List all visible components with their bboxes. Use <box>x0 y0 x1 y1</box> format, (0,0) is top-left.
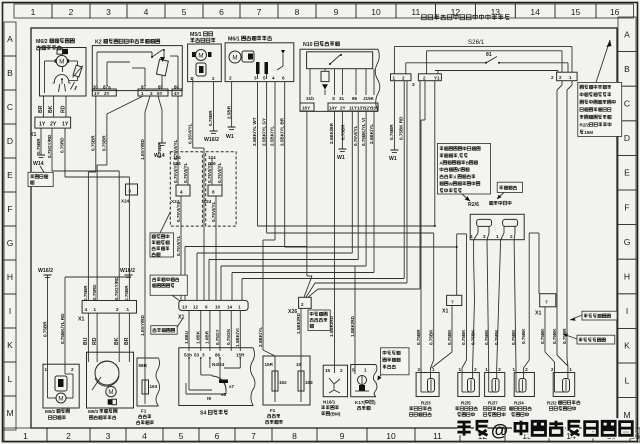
motor M6/2 left headlamp wiper motor <box>36 39 86 96</box>
svg-text:2.5BR: 2.5BR <box>226 105 231 119</box>
svg-text:S4: S4 <box>200 411 206 417</box>
svg-text:0.75BK: 0.75BK <box>461 329 466 345</box>
svg-text:2: 2 <box>66 431 71 441</box>
note box: curve indicates part of connector <box>308 310 330 331</box>
svg-text:s7: s7 <box>229 384 235 389</box>
switch S4 combination switch <box>179 348 255 417</box>
svg-text:2: 2 <box>510 234 513 239</box>
svg-text:4: 4 <box>85 307 88 312</box>
top ruler <box>14 4 633 18</box>
svg-text:0.75BK: 0.75BK <box>540 328 545 344</box>
svg-text:2: 2 <box>551 367 554 372</box>
svg-text:A: A <box>624 29 630 39</box>
svg-text:0.75BK: 0.75BK <box>484 329 489 345</box>
control unit N16/1 power latch computer <box>321 365 347 417</box>
connector (S26/1 left pins) <box>391 74 442 87</box>
svg-text:0.75VI/YL: 0.75VI/YL <box>211 201 216 222</box>
svg-text:2: 2 <box>71 367 74 372</box>
wires from variant boxes down to connector X1 bar <box>176 226 216 300</box>
svg-text:F1: F1 <box>270 408 276 413</box>
heater R2/4 left washer nozzle hose heater <box>510 367 535 416</box>
svg-text:163: 163 <box>150 384 158 389</box>
wires below K2 <box>91 96 179 358</box>
wire to N16/1 with label 1.5BK/RD <box>329 315 334 337</box>
wires from S26/1 connector into X26 (bent, converging) <box>304 81 420 298</box>
svg-text:1.5BK/VI: 1.5BK/VI <box>235 328 240 347</box>
variant box 124 036 (dashed) <box>203 152 236 226</box>
svg-text:2Y: 2Y <box>340 106 346 111</box>
svg-text:7: 7 <box>257 7 262 17</box>
relay K17 (hydraulic) <box>351 365 377 410</box>
staircase wires: X1 bar top pins up then right to N10 drops <box>185 81 404 301</box>
bottom ruler <box>4 428 640 442</box>
ground W16/2 under M5/1 <box>204 131 219 143</box>
svg-text:86: 86 <box>215 353 221 358</box>
svg-text:L: L <box>8 374 13 384</box>
svg-text:K: K <box>624 341 630 351</box>
svg-text:J15K: J15K <box>363 96 375 101</box>
switch S26/1 heated washer system thermo switch buses <box>394 39 572 74</box>
svg-text:F1: F1 <box>141 409 147 414</box>
svg-text:2: 2 <box>551 75 554 80</box>
svg-text:14: 14 <box>227 304 233 309</box>
svg-text:0.75RD: 0.75RD <box>92 284 97 300</box>
svg-text:9: 9 <box>205 304 208 309</box>
svg-text:6: 6 <box>215 431 220 441</box>
svg-text:K: K <box>7 340 13 350</box>
right ruler <box>618 17 636 432</box>
svg-text:1.0BK: 1.0BK <box>196 330 201 344</box>
svg-text:14Y: 14Y <box>329 106 337 111</box>
svg-text:0.75BK RD: 0.75BK RD <box>399 116 404 140</box>
svg-text:M5/2: M5/2 <box>45 409 56 414</box>
R2/6 top feeds from bus <box>425 81 435 226</box>
svg-text:Y1: Y1 <box>434 76 440 81</box>
svg-text:W14: W14 <box>33 161 44 167</box>
svg-text:5: 5 <box>179 431 184 441</box>
svg-text:10: 10 <box>371 7 381 17</box>
svg-text:31b: 31b <box>306 96 314 101</box>
svg-text:1.0GY/RD: 1.0GY/RD <box>140 314 145 336</box>
svg-text:0.75BK: 0.75BK <box>511 329 516 345</box>
svg-text:I: I <box>9 306 11 316</box>
svg-text:R2/4: R2/4 <box>514 401 524 406</box>
connector bar (above M6/3) <box>78 301 137 323</box>
svg-text:t9: t9 <box>207 396 212 401</box>
svg-text:0.75BR: 0.75BR <box>36 138 41 154</box>
svg-text:3: 3 <box>412 82 415 87</box>
relay module K2 headlamp washer relay <box>92 39 182 96</box>
connector X26 <box>288 297 311 315</box>
svg-text:BU: BU <box>83 337 89 345</box>
svg-text:G: G <box>7 238 14 248</box>
note box: connector code <box>151 318 183 334</box>
watermark <box>457 420 632 440</box>
svg-text:W16/2: W16/2 <box>204 137 219 143</box>
left long wires to bottom connector bar <box>52 165 129 301</box>
svg-text:0.75VI/YL: 0.75VI/YL <box>176 201 181 222</box>
ground W14 <box>33 155 45 167</box>
svg-text:2: 2 <box>559 75 562 80</box>
svg-text:M: M <box>59 59 64 66</box>
svg-text:R2/2: R2/2 <box>580 123 590 128</box>
svg-text:BK: BK <box>114 337 120 345</box>
svg-text:0.75BR: 0.75BR <box>124 285 129 301</box>
svg-text:?: ? <box>451 299 454 304</box>
connector X1 (left, 3-pin bar) <box>30 117 71 138</box>
svg-text:M: M <box>58 396 63 403</box>
left ruler <box>4 22 16 430</box>
svg-text:M: M <box>232 55 237 62</box>
svg-text:1: 1 <box>238 304 241 309</box>
svg-text:M: M <box>6 408 13 418</box>
note box: coordinate explanation (right) <box>578 40 622 136</box>
wire to K17: from X26 area down <box>350 266 355 365</box>
wires bar to M6/3 with labels BU RD BK BR <box>83 313 130 358</box>
motor M6/3 right headlamp wiper motor <box>87 352 134 419</box>
motor M6/1 wiper motor <box>225 36 294 82</box>
svg-text:F: F <box>7 204 12 214</box>
svg-text:3: 3 <box>202 353 205 358</box>
svg-text:53: 53 <box>194 353 200 358</box>
wires below X1: 0.75BR to ground W14, 0.75GY/RD, 0.75RD <box>36 128 65 177</box>
svg-text:1: 1 <box>94 307 97 312</box>
heater R2/3 right washer nozzle heater <box>409 367 439 416</box>
svg-text:0.75BK: 0.75BK <box>552 328 557 344</box>
svg-text:2: 2 <box>116 307 119 312</box>
svg-text:C: C <box>624 99 630 109</box>
svg-text:1: 1 <box>141 91 144 96</box>
svg-text:4: 4 <box>470 234 473 239</box>
svg-text:53b: 53b <box>184 353 192 358</box>
svg-text:11: 11 <box>411 7 420 17</box>
svg-text:1Y: 1Y <box>39 122 46 128</box>
wire 2.5BK/YL into F1 right <box>258 240 275 356</box>
svg-text:R2/7: R2/7 <box>488 401 498 406</box>
svg-text:W1: W1 <box>389 156 397 162</box>
svg-text:3: 3 <box>106 431 111 441</box>
note box: ground point symbol <box>28 166 53 187</box>
svg-text:X1: X1 <box>442 309 448 315</box>
connector (S26/1 right pins) <box>551 72 577 81</box>
svg-text:0.75VI/YL: 0.75VI/YL <box>173 162 178 183</box>
note box: wire color code <box>570 311 617 321</box>
svg-text:2: 2 <box>418 367 421 372</box>
svg-text:2: 2 <box>474 367 477 372</box>
svg-text:1.0GY/RD: 1.0GY/RD <box>140 138 145 160</box>
svg-text:86: 86 <box>352 96 358 101</box>
svg-text:0.75BK: 0.75BK <box>470 329 475 345</box>
svg-text:2: 2 <box>498 367 501 372</box>
connector X1 (small, far right) <box>535 294 556 317</box>
svg-text:6: 6 <box>219 7 224 17</box>
svg-text:X1: X1 <box>78 317 84 323</box>
svg-text:0.75BR: 0.75BR <box>341 124 346 140</box>
svg-text:0.75BR: 0.75BR <box>208 110 213 126</box>
svg-text:2.5BK/YL: 2.5BK/YL <box>369 124 374 144</box>
svg-text:3: 3 <box>254 76 257 81</box>
svg-text:162: 162 <box>279 380 287 385</box>
svg-text:G: G <box>624 237 631 247</box>
svg-text:8: 8 <box>292 431 297 441</box>
svg-text:N4/34: N4/34 <box>212 362 225 367</box>
svg-text:0.75VI/YL: 0.75VI/YL <box>207 162 212 183</box>
svg-text:0.75BR: 0.75BR <box>389 124 394 140</box>
svg-text:,: , <box>458 154 459 159</box>
svg-text:0.75BR: 0.75BR <box>91 135 96 151</box>
long heater feed wires with labels <box>258 81 573 373</box>
svg-text:15: 15 <box>571 7 581 17</box>
svg-text:0.75GY/RD: 0.75GY/RD <box>47 134 52 158</box>
svg-text:?: ? <box>545 299 548 304</box>
svg-text:1: 1 <box>459 367 462 372</box>
svg-text:1: 1 <box>364 368 367 373</box>
heater R2/7 windshield washer hose heater <box>483 367 505 416</box>
svg-text:11: 11 <box>433 431 442 441</box>
svg-text:0.75BR: 0.75BR <box>102 135 107 151</box>
connector X1 (small, mid-right) <box>442 295 462 314</box>
svg-text:13: 13 <box>182 304 188 309</box>
svg-text:124: 124 <box>173 155 181 160</box>
svg-text:14: 14 <box>530 7 540 17</box>
svg-text:1.5BK/RD: 1.5BK/RD <box>296 312 301 334</box>
note box: device code explanation <box>437 143 490 201</box>
svg-text:M: M <box>198 53 203 60</box>
svg-text:E: E <box>624 168 630 178</box>
svg-text:R2/2: R2/2 <box>547 401 557 406</box>
svg-text:4: 4 <box>142 431 147 441</box>
svg-text:2.5BK/YL: 2.5BK/YL <box>258 327 263 347</box>
svg-text:H: H <box>7 272 13 282</box>
heater R2/5 right washer hose heater <box>455 367 479 416</box>
svg-text:BK: BK <box>48 105 54 113</box>
svg-text:2.5BK/YL: 2.5BK/YL <box>270 126 275 146</box>
svg-text:0.75VI/YL: 0.75VI/YL <box>217 162 222 183</box>
svg-text:F: F <box>624 202 629 212</box>
svg-text:1: 1 <box>31 7 36 17</box>
svg-text:S: S <box>332 96 335 101</box>
fuse box F1 (left) <box>136 358 159 424</box>
svg-text:s8: s8 <box>221 392 227 397</box>
svg-text:0.35VI/YL: 0.35VI/YL <box>188 123 193 144</box>
svg-text:0.75BR: 0.75BR <box>83 285 88 301</box>
svg-text:0.75BK: 0.75BK <box>494 329 499 345</box>
svg-text:N10: N10 <box>303 42 313 48</box>
svg-text:4Y: 4Y <box>174 91 180 96</box>
svg-text:2.5BK/YL GY: 2.5BK/YL GY <box>261 118 266 146</box>
pump M5/1 windshield washer pump <box>188 32 222 82</box>
svg-text:RD: RD <box>92 337 98 345</box>
svg-text:X1: X1 <box>30 132 36 138</box>
svg-text:C: C <box>7 102 13 112</box>
svg-text:10: 10 <box>386 431 396 441</box>
svg-text:M6/3: M6/3 <box>88 409 99 414</box>
svg-text:A: A <box>7 34 13 44</box>
svg-text:2.5BK/YL BR: 2.5BK/YL BR <box>279 117 284 146</box>
svg-text:2Y: 2Y <box>104 91 110 96</box>
note box: wavy line part of device <box>378 348 410 381</box>
svg-text:0.75BK: 0.75BK <box>447 329 452 345</box>
svg-text:W1: W1 <box>226 134 234 140</box>
svg-text:1: 1 <box>485 367 488 372</box>
svg-text:0.75BK: 0.75BK <box>521 328 526 344</box>
svg-text:L: L <box>625 375 630 385</box>
svg-text:(BM): (BM) <box>330 412 341 417</box>
svg-text:1: 1 <box>432 367 435 372</box>
svg-text:0.75BK/YL RD: 0.75BK/YL RD <box>60 313 65 344</box>
connector X24 5Y <box>121 184 138 204</box>
svg-text:X1: X1 <box>535 311 541 317</box>
svg-text:5Y: 5Y <box>157 91 163 96</box>
svg-text:M: M <box>623 410 630 420</box>
heater R2/2 left windshield washer hose heater <box>547 367 580 410</box>
svg-text:16Y: 16Y <box>302 106 310 111</box>
svg-text:2: 2 <box>402 76 405 81</box>
svg-text:15R: 15R <box>236 353 245 358</box>
svg-text:0.75BR: 0.75BR <box>416 329 421 345</box>
wires below N10 with labels <box>307 111 374 364</box>
svg-text:15R: 15R <box>265 362 274 367</box>
svg-text:0.75GN: 0.75GN <box>226 328 231 345</box>
svg-text:R2/5: R2/5 <box>461 401 471 406</box>
svg-text:0.75VI/YL: 0.75VI/YL <box>353 125 358 146</box>
svg-text:1: 1 <box>23 431 28 441</box>
svg-text:3: 3 <box>483 234 486 239</box>
svg-text:2: 2 <box>340 368 343 373</box>
svg-text:R2/6: R2/6 <box>468 202 479 208</box>
svg-text:4: 4 <box>272 76 275 81</box>
relay N10 combination relay <box>300 41 380 111</box>
svg-text:W16/2: W16/2 <box>38 268 53 274</box>
wires from X1 bar down to S4 with labels <box>184 311 241 352</box>
note box: wire gauge code <box>563 334 615 344</box>
svg-text:D: D <box>7 136 13 146</box>
svg-text:M6/1: M6/1 <box>228 37 240 43</box>
svg-text:0.75RD: 0.75RD <box>60 137 65 153</box>
svg-text:0.75VI/YL: 0.75VI/YL <box>183 162 188 183</box>
ground W14 (second, mid) <box>154 138 166 159</box>
svg-text:E: E <box>7 170 13 180</box>
left: ground W16/2 and wires to M5/2 <box>38 268 131 364</box>
svg-text:15: 15 <box>325 368 331 373</box>
fuse box F1 (right) <box>263 356 313 424</box>
svg-text:5: 5 <box>263 76 266 81</box>
note box: connector pin numbering <box>150 275 187 301</box>
svg-text:1: 1 <box>513 367 516 372</box>
svg-text:W1: W1 <box>337 155 345 161</box>
svg-text:2: 2 <box>212 76 215 81</box>
svg-text:4: 4 <box>144 7 149 17</box>
svg-text:B: B <box>7 68 13 78</box>
svg-text:31: 31 <box>339 96 345 101</box>
svg-text:M6/2: M6/2 <box>36 39 48 45</box>
svg-text:K2: K2 <box>95 40 102 46</box>
svg-text:X24: X24 <box>121 199 130 204</box>
ground W16/2 (above bottom bar) <box>120 268 135 278</box>
svg-text:2: 2 <box>423 76 426 81</box>
svg-text:1: 1 <box>393 76 396 81</box>
svg-text:2.5BK/YL WT: 2.5BK/YL WT <box>252 117 257 146</box>
wires from M6/2 to connector X1, labels BR BK RD <box>38 96 67 117</box>
svg-text:W: W <box>449 182 454 187</box>
connector X1 (long bar) <box>178 300 248 320</box>
svg-text:K17(: K17( <box>355 400 365 405</box>
svg-text:0.75GY: 0.75GY <box>215 329 220 345</box>
labels R2/6 and heater name <box>468 201 511 208</box>
svg-text:1.0BR: 1.0BR <box>205 330 210 344</box>
svg-text:1: 1 <box>496 234 499 239</box>
svg-text:θ1: θ1 <box>486 52 492 58</box>
svg-text:0.75BK: 0.75BK <box>429 329 434 345</box>
svg-text:R2/3: R2/3 <box>421 401 431 406</box>
svg-text:1.0BU: 1.0BU <box>184 330 189 344</box>
svg-text:9: 9 <box>334 7 339 17</box>
svg-text:16: 16 <box>610 7 620 17</box>
svg-text:2: 2 <box>301 302 304 307</box>
variant box 124 034 (dashed) <box>170 152 202 226</box>
svg-text:B: B <box>624 64 630 74</box>
svg-text:N16/1: N16/1 <box>323 400 336 405</box>
svg-text:1: 1 <box>569 75 572 80</box>
svg-text:F: F <box>458 168 461 173</box>
svg-text:M: M <box>108 389 113 396</box>
svg-text:10: 10 <box>215 304 221 309</box>
svg-text:8: 8 <box>295 7 300 17</box>
svg-text:1: 1 <box>127 307 130 312</box>
svg-text:0.75BR: 0.75BR <box>42 321 47 337</box>
pump M5/2 headlamp washer pump <box>43 364 79 419</box>
wires below M6/1: 2.5BR to ground W1, four 2.5BK/YL wires <box>226 82 285 247</box>
svg-text:11Y: 11Y <box>349 106 357 111</box>
svg-text:0.75GY/RD: 0.75GY/RD <box>114 276 119 300</box>
svg-text:15M: 15M <box>584 130 593 135</box>
svg-text:5: 5 <box>182 7 187 17</box>
svg-text:6: 6 <box>282 76 285 81</box>
svg-text:1: 1 <box>190 76 193 81</box>
note box: different relays in different models <box>150 212 174 257</box>
svg-text:10Y: 10Y <box>371 106 379 111</box>
svg-text:W14: W14 <box>154 153 165 159</box>
svg-text:0.75BK/YL VI: 0.75BK/YL VI <box>361 118 366 146</box>
svg-text:1Y: 1Y <box>94 91 100 96</box>
wire X26 down to fuse box <box>296 308 301 364</box>
svg-text:1.5BK/RD: 1.5BK/RD <box>329 315 334 337</box>
note box: device name <box>497 182 523 199</box>
svg-text:W16/2: W16/2 <box>120 268 135 274</box>
svg-text:S26/1: S26/1 <box>468 39 485 46</box>
svg-text:BR: BR <box>124 337 130 345</box>
svg-text:I: I <box>626 306 628 316</box>
svg-text:13: 13 <box>491 7 501 17</box>
svg-text:BR: BR <box>38 105 44 113</box>
heater R2/6 one-way valve heater <box>470 214 524 240</box>
svg-text:2: 2 <box>69 7 74 17</box>
svg-text:X1: X1 <box>178 315 184 321</box>
svg-text:1Y: 1Y <box>62 122 69 128</box>
svg-text:58R: 58R <box>139 363 148 368</box>
svg-text:2Y: 2Y <box>50 122 57 128</box>
svg-text:2: 2 <box>150 91 153 96</box>
wires below M5/1: 0.35VI/YL, 0.75BR to ground W16/2 <box>188 82 214 300</box>
svg-text:RD: RD <box>61 105 67 113</box>
svg-text:1: 1 <box>569 367 572 372</box>
svg-text:M5/1: M5/1 <box>190 32 202 38</box>
svg-text:3: 3 <box>106 7 111 17</box>
header label: system title <box>422 14 510 20</box>
svg-text:163: 163 <box>305 380 313 385</box>
svg-text:7: 7 <box>251 431 256 441</box>
svg-text:4: 4 <box>180 190 183 195</box>
